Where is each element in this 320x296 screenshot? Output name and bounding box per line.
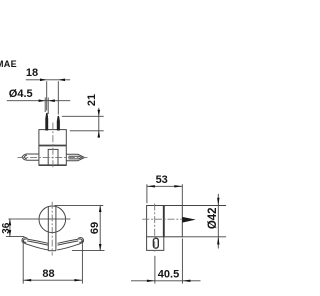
dim O4.5 leader line: [7, 100, 70, 102]
left tab inner tip line: [24, 155, 26, 159]
dim 88 right extension line: [81, 240, 83, 284]
dim 40.5 right arrow: [182, 280, 190, 282]
dim 69 top extension line: [55, 204, 104, 206]
dim 18 dimension line: [26, 79, 70, 81]
horizontal centerline of drawing1: [18, 156, 88, 158]
vertical centerline of drawing1: [52, 123, 54, 169]
dim O4.5 left arrow: [39, 99, 46, 102]
dim 21 bottom extension line: [70, 130, 104, 132]
left tab: [22, 154, 39, 160]
dim 53 right arrow: [174, 185, 182, 187]
circle horizontal centerline: [8, 218, 70, 220]
dim 21 lines: [62, 108, 104, 138]
pin (side view): [182, 217, 196, 223]
dim 53 left extension line: [146, 184, 148, 203]
right tab inner detail: [69, 156, 83, 159]
dim 40.5 left arrow: [147, 280, 155, 282]
dim 69 top arrow: [99, 205, 102, 212]
svg-text:MAE: MAE: [0, 59, 17, 69]
dim 18 left extension line: [46, 81, 48, 110]
circle: [39, 206, 66, 233]
vertical centerline: [51, 202, 53, 256]
dim O4.5 right arrow: [48, 99, 55, 102]
stem: [48, 207, 56, 251]
dim O42 lines: [182, 194, 226, 249]
dim 36 dimension line: [9, 219, 11, 237]
body divider line: [39, 145, 66, 147]
dim O42 bottom extension line: [182, 236, 226, 238]
dim 40.5 dimension line: [131, 280, 201, 282]
svg-text:53: 53: [156, 174, 168, 186]
svg-text:18: 18: [26, 67, 38, 79]
dim O42 top extension line: [182, 205, 226, 207]
dim 53 left arrow: [147, 185, 155, 187]
dim 88 left extension line: [22, 240, 24, 284]
dim 53 lines: [147, 184, 182, 205]
dim 53 right extension line: [181, 184, 183, 205]
dim 18 right arrow: [58, 79, 65, 82]
body rect: [147, 206, 183, 237]
dim 36 top arrow: [9, 219, 12, 226]
dim 40.5 left extension line: [154, 256, 156, 284]
drawing3 horizontal centerline: [142, 218, 181, 220]
svg-text:21: 21: [86, 94, 98, 106]
dim 36 lines: [6, 219, 25, 237]
dim 88 right arrow: [74, 279, 82, 281]
drawing3 vertical centerline: [154, 204, 156, 252]
inner rectangle: [48, 149, 58, 165]
dim 88 lines: [23, 240, 82, 284]
dim O42 dimension line: [217, 194, 219, 249]
dim 21 top arrow: [98, 110, 101, 117]
oval slot: [153, 238, 158, 248]
body bottom thick edge: [39, 164, 66, 166]
dim 69 dimension line: [99, 205, 101, 250]
dim 18 right extension line: [57, 81, 59, 114]
dim 40.5 lines: [131, 239, 201, 284]
dim 88 dimension line: [23, 279, 82, 281]
dim O4.5 right extension line: [47, 98, 49, 115]
dim 36 bottom extension line: [6, 236, 25, 238]
dim 21 bottom arrow: [98, 131, 101, 138]
svg-text:36: 36: [1, 222, 12, 234]
svg-text:40.5: 40.5: [158, 268, 179, 280]
dim 18 left arrow: [40, 79, 47, 82]
lower block: [147, 237, 164, 251]
dim 21 dimension line: [98, 108, 100, 138]
dim 69 lines: [55, 205, 105, 250]
dim O42 bottom arrow: [217, 237, 219, 245]
dim 18 lines: [26, 80, 70, 115]
dim 40.5 right extension line: [181, 239, 183, 284]
dim 36 bottom arrow: [9, 230, 12, 237]
body outline: [39, 130, 66, 166]
svg-text:69: 69: [89, 222, 101, 234]
bracket (wing): [22, 238, 84, 250]
right tab: [66, 154, 84, 161]
dim 69 bottom extension line: [72, 250, 105, 252]
thick joint line: [163, 206, 165, 237]
dim 21 top extension line: [62, 115, 104, 117]
svg-text:Ø42: Ø42: [207, 207, 219, 229]
svg-text:Ø4.5: Ø4.5: [9, 88, 33, 100]
dim O42 top arrow: [217, 198, 219, 206]
dim 69 bottom arrow: [99, 244, 102, 251]
right pin: [57, 116, 60, 131]
left pin: [45, 113, 48, 131]
dim O4.5 lines: [7, 98, 70, 115]
svg-text:88: 88: [42, 268, 54, 280]
dim 88 left arrow: [23, 279, 31, 281]
dim O4.5 left extension line: [44, 98, 46, 113]
dim 53 dimension line: [147, 185, 182, 187]
